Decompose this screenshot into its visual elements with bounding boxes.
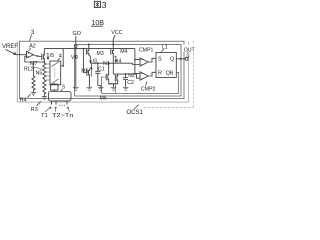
- wire CMP2 out to R: [148, 72, 156, 76]
- figure title kanji Zu: [94, 1, 100, 7]
- terminal leads T1 T2 Tn: [52, 101, 68, 105]
- svg-text:RL2: RL2: [24, 67, 34, 73]
- taps from resistor chain to switch box: [46, 64, 50, 80]
- svg-text:QB: QB: [166, 70, 174, 76]
- svg-text:C2: C2: [127, 80, 134, 86]
- ground under VR line: [73, 87, 79, 90]
- ground under R3 chain: [42, 97, 47, 100]
- wire N1: [91, 62, 133, 64]
- second outer box dashed: [17, 41, 188, 102]
- svg-text:OCS1: OCS1: [127, 110, 144, 116]
- wire W2 bias rail: [44, 48, 135, 50]
- svg-text:R4: R4: [20, 97, 27, 103]
- svg-text:VREF: VREF: [2, 44, 18, 50]
- wire N2: [113, 73, 136, 75]
- svg-text:R3: R3: [31, 107, 38, 113]
- ground under C2: [123, 87, 129, 90]
- node on bias rail: [83, 48, 85, 50]
- svg-text:3: 3: [102, 0, 107, 10]
- ground under C1: [98, 87, 104, 90]
- svg-text:M3: M3: [97, 51, 104, 57]
- box OCS1: [75, 44, 182, 96]
- feedback branch to M8 gate: [114, 81, 116, 93]
- wire N2 to CMP2: [137, 74, 141, 78]
- svg-text:T1: T1: [41, 113, 48, 119]
- svg-text:GO: GO: [73, 31, 81, 37]
- sensor block T: [49, 92, 72, 101]
- svg-text:Q: Q: [170, 56, 174, 62]
- svg-text:VR: VR: [71, 55, 78, 61]
- transistor M8 discharge N2: [109, 74, 118, 84]
- svg-text:T2~Tn: T2~Tn: [52, 113, 74, 119]
- ground under M6: [111, 87, 117, 90]
- thermistor element: [51, 84, 59, 90]
- feedback wire QB: [102, 72, 179, 93]
- wire VREF input: [17, 54, 27, 56]
- terminal OUT: [182, 45, 196, 52]
- wire M4 drain to N2: [112, 58, 114, 74]
- svg-text:I5: I5: [50, 53, 54, 59]
- svg-text:M4: M4: [120, 49, 127, 55]
- svg-text:L1: L1: [162, 44, 168, 50]
- box 3: [20, 41, 184, 98]
- svg-text:VCC: VCC: [111, 30, 122, 36]
- svg-text:M6: M6: [100, 96, 107, 102]
- svg-text:S: S: [158, 56, 162, 62]
- current arrow M5 drain: [90, 63, 92, 76]
- outer box 10B dashed: [144, 41, 193, 108]
- ground under R4: [31, 93, 36, 96]
- switch box 4: [50, 61, 61, 85]
- svg-text:CMP1: CMP1: [139, 48, 154, 54]
- node junction A2 out: [37, 55, 39, 57]
- feedback wire to A2 minus: [25, 56, 45, 62]
- wire A2 output: [34, 55, 42, 57]
- svg-text:R: R: [158, 70, 162, 76]
- ground under M5: [87, 87, 93, 90]
- switch common output wire: [62, 65, 64, 67]
- svg-text:M5: M5: [81, 69, 88, 75]
- svg-text:CMP2: CMP2: [141, 87, 156, 93]
- svg-text:N5: N5: [36, 70, 43, 76]
- svg-text:OUT: OUT: [184, 47, 196, 53]
- wire VR vertical: [75, 49, 77, 88]
- wire CMP1 out to S: [148, 58, 156, 62]
- wire N1 to CMP1: [133, 63, 140, 64]
- wire VR to comparators: [135, 49, 140, 74]
